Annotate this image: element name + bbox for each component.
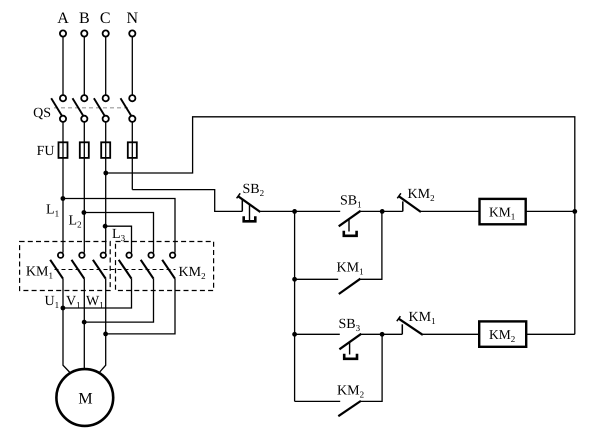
node W1 junction: [103, 332, 108, 337]
svg-text:KM1: KM1: [26, 265, 53, 281]
wire L3 tap to KM2: [105, 226, 131, 252]
pushbutton SB3 (start reverse, NO): [339, 334, 361, 359]
wire FU phase N down: [131, 158, 133, 190]
wire U1 to motor: [63, 279, 70, 373]
svg-text:L3: L3: [112, 227, 126, 243]
wire right rail lower: [574, 211, 576, 334]
contact KM1 NC interlock: [397, 316, 423, 335]
wire branch1 left: [295, 278, 339, 280]
wire KM2 pole2 to V1: [84, 279, 153, 322]
node right rail at KM1 coil: [572, 209, 577, 214]
svg-text:KM2: KM2: [489, 327, 515, 344]
svg-text:C: C: [100, 10, 111, 27]
wire KM2 pole3 to W1: [106, 279, 175, 334]
pushbutton SB2 (stop, NC): [237, 193, 261, 221]
svg-text:FU: FU: [37, 144, 55, 159]
svg-text:N: N: [127, 10, 139, 27]
wire branch1 right: [360, 211, 382, 279]
wire junction to KM2 NC: [382, 210, 403, 212]
KM2 main contact pole 3: [162, 253, 175, 279]
pushbutton SB1 (start, NO): [339, 211, 361, 236]
wire SB3 to junction: [361, 333, 382, 335]
svg-text:SB3: SB3: [339, 317, 361, 333]
wire KM1 NC to coil KM2: [423, 333, 479, 335]
wire FU to KM1 contact phase B: [83, 158, 85, 253]
svg-text:B: B: [79, 10, 90, 27]
svg-text:U1: U1: [45, 294, 60, 310]
wire phase N to QS: [131, 37, 133, 95]
fuse FU phase B: [80, 142, 89, 158]
terminal C: [103, 30, 109, 36]
fuse FU phase C: [101, 142, 110, 158]
svg-text:KM2: KM2: [408, 187, 435, 203]
switch QS linkage: [54, 107, 129, 109]
wire KM2 NC to coil KM1: [421, 210, 480, 212]
coil KM1: [480, 199, 526, 224]
KM1 main contact pole 3: [93, 253, 106, 279]
svg-text:SB2: SB2: [243, 182, 265, 198]
wire phase B to QS: [83, 37, 85, 95]
node U1 junction: [61, 306, 66, 311]
wire L2 tap to KM2: [84, 213, 154, 253]
switch QS pole N: [121, 95, 136, 122]
wire junction to SB1: [295, 210, 341, 212]
wire branch2 left: [295, 333, 340, 335]
wire SB1 to junction: [360, 210, 383, 212]
terminal N: [129, 30, 135, 36]
svg-text:KM1: KM1: [337, 261, 364, 277]
wire junction to KM1 NC: [382, 333, 402, 335]
wire control supply from C: [106, 117, 575, 212]
KM1 main contact pole 2: [72, 253, 85, 279]
wire W1 to motor: [99, 279, 105, 373]
fuse FU phase N: [128, 142, 137, 158]
switch QS pole B: [73, 95, 88, 122]
contact KM2 NC interlock: [397, 193, 421, 212]
switch QS pole A: [51, 95, 66, 122]
wire FU to KM1 contact phase A: [62, 158, 64, 253]
node left rail branch 2: [292, 332, 297, 337]
svg-text:M: M: [78, 391, 92, 408]
svg-text:L2: L2: [69, 214, 82, 230]
svg-text:L1: L1: [46, 203, 59, 219]
wire QS to FU phase A: [62, 122, 64, 158]
node V1 junction: [82, 320, 87, 325]
terminal B: [81, 30, 87, 36]
svg-text:KM2: KM2: [337, 384, 364, 400]
contact KM2 NO self-holding: [338, 401, 361, 416]
wire branch3 right: [361, 334, 382, 401]
wire QS to FU phase B: [83, 122, 85, 158]
svg-text:SB1: SB1: [340, 194, 362, 210]
node after SB2: [292, 209, 297, 214]
switch QS pole C: [94, 95, 109, 122]
svg-text:KM2: KM2: [179, 265, 206, 281]
wire phase A to QS: [62, 37, 64, 95]
wire coil KM1 to right rail: [526, 210, 575, 212]
wire phase C to QS: [105, 37, 107, 95]
wire SB2 to junction: [260, 210, 294, 212]
node control tap on phase C: [103, 171, 108, 176]
wire control neutral from N: [132, 190, 242, 212]
wire coil KM2 to right rail: [526, 333, 575, 335]
node after SB1: [380, 209, 385, 214]
wire FU to KM1 contact phase C: [105, 158, 107, 253]
wire KM2 pole1 to U1: [63, 279, 132, 308]
node L1: [61, 196, 66, 201]
contactor KM2 dashed box: [116, 242, 214, 291]
wire left rail: [294, 211, 296, 401]
motor M: [56, 369, 113, 426]
KM2 main contact pole 1: [119, 253, 132, 279]
node left rail branch 1: [292, 277, 297, 282]
wire branch3 left: [295, 400, 341, 402]
svg-text:QS: QS: [33, 106, 51, 121]
node after SB3: [380, 332, 385, 337]
wire QS to FU phase N: [131, 122, 133, 158]
terminal A: [60, 30, 66, 36]
node L2: [82, 210, 87, 215]
fuse FU phase A: [59, 142, 68, 158]
contact KM1 NO self-holding: [339, 279, 361, 294]
KM2 main contact pole 2: [141, 253, 154, 279]
svg-text:KM1: KM1: [489, 205, 515, 222]
coil KM2: [479, 321, 526, 346]
svg-text:A: A: [57, 10, 69, 27]
wire L1 tap to KM2: [63, 199, 175, 253]
KM1 main contact pole 1: [50, 253, 63, 279]
contactor KM1 dashed box: [20, 242, 111, 291]
contact linkage dashes: [55, 269, 176, 271]
node L3: [103, 224, 108, 229]
svg-text:KM1: KM1: [409, 310, 436, 326]
wire V1 to motor: [83, 279, 85, 370]
wire QS to FU phase C: [105, 122, 107, 158]
